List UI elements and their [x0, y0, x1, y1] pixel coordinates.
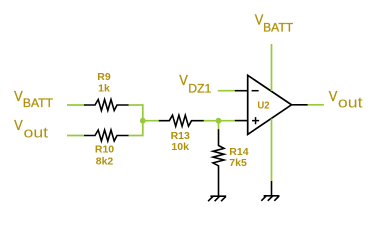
- wire node B to op-amp non-inverting input: [219, 120, 236, 122]
- svg-text:U2: U2: [257, 99, 269, 111]
- svg-text:out: out: [338, 95, 364, 112]
- svg-text:V: V: [179, 73, 188, 89]
- svg-text:V: V: [14, 118, 23, 134]
- wire V_out to R10: [67, 135, 85, 137]
- svg-text:R10: R10: [95, 144, 114, 156]
- resistor R14: [213, 129, 224, 196]
- wire op-amp negative supply to GND2: [271, 119, 273, 181]
- svg-text:R9: R9: [97, 71, 111, 83]
- junction node A: [140, 118, 146, 124]
- net label V_out (right): [329, 89, 364, 112]
- ground GND1 (below R14): [208, 196, 226, 201]
- minus sign (inverting input): [252, 90, 259, 92]
- net label V_DZ1: [179, 73, 211, 96]
- wire R10 to node A: [129, 135, 143, 137]
- wire node B to R14: [218, 121, 220, 130]
- net label V_out (left): [14, 118, 49, 142]
- op-amp inverting input pin: [235, 90, 248, 92]
- ground GND2 pin: [271, 181, 273, 196]
- resistor R13: [159, 115, 204, 126]
- net label V_BATT (top): [255, 12, 294, 34]
- svg-text:7k5: 7k5: [229, 157, 247, 169]
- svg-text:BATT: BATT: [263, 21, 294, 35]
- svg-text:10k: 10k: [171, 141, 189, 153]
- svg-text:V: V: [329, 89, 338, 105]
- op-amp output pin: [292, 104, 308, 106]
- net label V_BATT (left): [14, 89, 53, 110]
- resistor R10: [84, 130, 129, 141]
- wire V_BATT to op-amp positive supply: [271, 44, 273, 91]
- wire node A vertical segment: [142, 104, 144, 136]
- wire V_DZ1 to op-amp inverting input: [218, 90, 235, 92]
- op-amp U2: [248, 75, 292, 134]
- ground GND2: [261, 196, 279, 201]
- wire node A to R13: [143, 120, 159, 122]
- svg-text:DZ1: DZ1: [188, 82, 211, 96]
- svg-text:V: V: [14, 89, 23, 105]
- wire V_BATT to R9: [67, 104, 85, 106]
- op-amp non-inverting input pin: [235, 120, 248, 122]
- wire output to V_out: [308, 104, 324, 106]
- svg-text:out: out: [24, 125, 50, 142]
- svg-text:BATT: BATT: [23, 96, 54, 110]
- junction node B: [216, 118, 222, 124]
- wire R9 to node A: [129, 104, 143, 106]
- svg-text:8k2: 8k2: [96, 156, 114, 168]
- resistor R9: [84, 100, 129, 111]
- plus sign (non-inverting input): [252, 117, 259, 124]
- svg-text:1k: 1k: [98, 82, 110, 94]
- wire R13 to node B: [204, 120, 219, 122]
